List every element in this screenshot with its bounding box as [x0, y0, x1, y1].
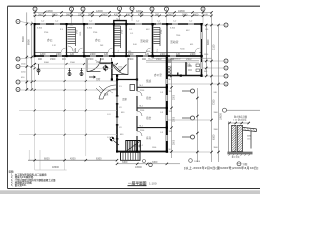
dim chain x171.5 beside wing: [171, 58, 173, 158]
detail hatched wall strip 1: [232, 125, 236, 151]
inner line y58: [153, 57, 212, 59]
wing right wall: [166, 56, 168, 152]
svg-text:宿舍: 宿舍: [146, 116, 152, 120]
svg-text:3.300: 3.300: [87, 28, 93, 30]
svg-text:2700: 2700: [44, 32, 48, 34]
svg-text:150: 150: [205, 29, 208, 31]
svg-text:2400: 2400: [90, 53, 96, 56]
svg-text:18600: 18600: [52, 166, 60, 169]
svg-text:3600: 3600: [193, 13, 199, 16]
svg-text:M-1: M-1: [140, 125, 143, 127]
wing corridor specks: [119, 86, 156, 149]
grid line extensions right: [168, 25, 224, 84]
svg-text:3600: 3600: [52, 13, 58, 16]
svg-text:6900: 6900: [27, 39, 31, 45]
exterior wall top: [34, 23, 203, 25]
wing column dots: [116, 75, 203, 153]
svg-text:3300: 3300: [174, 116, 176, 122]
wing stair break line: [127, 142, 140, 152]
svg-text:C-3: C-3: [160, 92, 163, 94]
svg-text:3600: 3600: [38, 13, 44, 16]
toilet wall x186: [185, 62, 187, 76]
column dots top band: [34, 23, 203, 57]
svg-text:900: 900: [204, 71, 207, 73]
small marks right section: [168, 60, 171, 62]
courtyard bottom dim line: [28, 159, 117, 161]
wing stair block: [126, 141, 141, 153]
stair shaft walls: [114, 21, 126, 57]
stair shaft treads: [115, 26, 121, 48]
svg-text:10500: 10500: [135, 166, 142, 169]
entrance hall bottom wall: [116, 79, 138, 81]
detail apron slab: [243, 127, 257, 148]
svg-text:6900: 6900: [207, 39, 210, 45]
svg-text:4200: 4200: [70, 157, 76, 160]
closet rect below hall: [130, 85, 135, 91]
svg-text:6000: 6000: [44, 157, 50, 160]
porch wall vertical: [111, 62, 113, 80]
svg-text:C-2: C-2: [158, 23, 161, 25]
svg-text:6300: 6300: [96, 157, 102, 160]
top dimension ticks: [34, 11, 204, 17]
right dim ticks: [205, 24, 220, 153]
svg-text:C-3: C-3: [160, 112, 163, 114]
dimension text under bottom wall: [38, 58, 192, 61]
svg-text:2400: 2400: [96, 62, 102, 64]
svg-text:2700: 2700: [161, 30, 163, 34]
detail top dim: [229, 122, 249, 124]
right dim line 3: [218, 25, 220, 162]
wing bottom dim: [117, 163, 180, 165]
svg-text:1.5: 1.5: [119, 86, 122, 88]
leader marks entrance: [95, 60, 113, 93]
svg-text:M-1: M-1: [190, 44, 193, 46]
sheet border left: [7, 6, 9, 188]
svg-text:1:12: 1:12: [52, 45, 56, 47]
svg-text:1800x600: 1800x600: [172, 59, 180, 61]
corridor inner line: [35, 52, 202, 54]
top grid bubble digits: [34, 8, 205, 11]
svg-text:19800: 19800: [220, 113, 223, 120]
interior wall x167 upper: [166, 24, 168, 56]
right wall windows: [201, 32, 203, 69]
top dimension line 1: [33, 11, 212, 13]
svg-text:900: 900: [142, 58, 147, 61]
detail leader line: [223, 108, 227, 112]
left grid leaders: [20, 22, 117, 91]
svg-text:10500: 10500: [194, 161, 201, 163]
top grid bubbles row: [33, 7, 205, 12]
entrance door arcs pair 2: [112, 58, 129, 75]
svg-text:2100: 2100: [140, 130, 144, 132]
wing stair treads: [128, 141, 138, 152]
svg-text:2700: 2700: [77, 30, 79, 34]
left exterior wall: [34, 23, 36, 57]
stair 3 treads: [154, 28, 161, 47]
porch wall stub: [100, 62, 111, 64]
wing room labels: [122, 79, 152, 140]
svg-text:卫生: 卫生: [186, 63, 192, 67]
interior wall x84: [83, 24, 85, 56]
courtyard side labels: [107, 112, 125, 139]
wall bottom of top band: [34, 55, 203, 57]
sheet background: [0, 0, 260, 194]
left dim speck cluster: [21, 64, 26, 80]
svg-text:TB-2: TB-2: [116, 19, 120, 21]
entrance door arcs pair 1: [87, 58, 101, 72]
svg-text:C3: C3: [119, 127, 121, 129]
wing stair arrow: [133, 145, 141, 147]
top grid leader lines: [35, 11, 203, 25]
svg-text:办公: 办公: [95, 38, 101, 42]
svg-text:2400: 2400: [128, 53, 134, 56]
right grid bubble digits: [225, 25, 227, 86]
svg-text:120: 120: [176, 53, 181, 56]
svg-text:1800: 1800: [146, 51, 150, 53]
svg-text:330: 330: [78, 13, 83, 16]
detail slab hatch marks: [244, 128, 255, 131]
interior wall x66.5: [66, 24, 68, 56]
svg-text:库房: 库房: [146, 136, 152, 140]
svg-text:3300: 3300: [174, 94, 176, 100]
wing left wall door gaps: [116, 96, 118, 124]
top wall window lines: [40, 23, 194, 25]
svg-text:2400: 2400: [190, 53, 196, 56]
svg-text:120: 120: [169, 131, 172, 133]
dimension text row inside above bottom wall: [40, 53, 196, 56]
svg-text:3300: 3300: [122, 161, 128, 164]
svg-text:宿舍: 宿舍: [146, 96, 152, 100]
svg-text:1500: 1500: [50, 58, 56, 61]
top dimension line 2: [33, 15, 212, 17]
detail title top text: [233, 114, 247, 121]
svg-text:3.300: 3.300: [170, 28, 176, 30]
svg-text:TB-1: TB-1: [69, 25, 73, 27]
right grid bubbles column: [224, 23, 228, 86]
svg-text:900: 900: [38, 58, 43, 61]
svg-text:90: 90: [169, 149, 171, 151]
svg-text:3600: 3600: [102, 13, 108, 16]
left grid bubble digits: [17, 21, 19, 91]
svg-text:7200: 7200: [176, 35, 180, 37]
svg-text:2100: 2100: [213, 44, 216, 50]
svg-text:120: 120: [145, 53, 150, 56]
survey point symbol: [102, 65, 108, 71]
wing room walls: [137, 87, 167, 127]
left dimension line 2: [31, 22, 33, 91]
right dim numbers: [207, 39, 223, 140]
svg-text:3.00: 3.00: [133, 44, 137, 46]
right exterior wall upper: [201, 23, 203, 76]
svg-text:M-1: M-1: [140, 106, 143, 108]
high window double lines: [146, 60, 199, 62]
wing window-door labels: [140, 85, 164, 147]
wing left wall: [116, 76, 118, 153]
detail bottom label: [237, 162, 241, 166]
room top inner specks: [37, 28, 190, 33]
stair 1 arrow: [74, 48, 76, 52]
svg-text:120: 120: [169, 111, 172, 113]
door dark marks on wing left wall: [116, 95, 118, 140]
svg-text:走廊: 走廊: [122, 97, 127, 101]
outside steps below wing: [121, 152, 141, 160]
svg-text:1500: 1500: [88, 58, 94, 61]
svg-text:[以上-2006年2月6日(第0286号)2006年8月30: [以上-2006年2月6日(第0286号)2006年8月30日]: [184, 165, 259, 170]
svg-text:1500: 1500: [70, 62, 76, 64]
svg-text:3900: 3900: [214, 147, 218, 149]
wing room door arcs: [137, 91, 142, 136]
svg-text:6900: 6900: [21, 36, 25, 42]
hanging bubbles near wing: [191, 89, 195, 139]
wing window marks right wall: [166, 79, 168, 141]
svg-text:1500: 1500: [152, 147, 156, 149]
svg-text:M-1: M-1: [140, 85, 143, 87]
svg-text:120: 120: [70, 53, 75, 56]
bottom title: [128, 181, 157, 186]
svg-text:5、散水宽600.: 5、散水宽600.: [11, 183, 27, 187]
entrance ramp curve: [99, 85, 116, 99]
svg-text:C-3: C-3: [160, 132, 163, 134]
svg-text:3000: 3000: [44, 62, 50, 64]
svg-text:2700: 2700: [93, 32, 97, 34]
grid bubble with leader right of wing: [189, 159, 193, 163]
svg-text:900: 900: [62, 58, 67, 61]
svg-text:120: 120: [169, 91, 172, 93]
detail side dim: [247, 134, 251, 141]
entrance labels: [96, 63, 123, 96]
svg-text:3300: 3300: [214, 112, 218, 114]
svg-text:1200: 1200: [40, 53, 46, 56]
toilet stalls: [188, 64, 200, 72]
svg-text:办公室: 办公室: [154, 73, 162, 77]
svg-text:2400: 2400: [56, 53, 62, 56]
svg-text:3300: 3300: [152, 161, 158, 164]
misc room dim specks: [44, 19, 193, 53]
svg-text:值班: 值班: [146, 79, 152, 83]
top dimension numbers: [38, 10, 199, 16]
svg-text:3600: 3600: [168, 13, 174, 16]
detail hatched wall strip 2: [238, 125, 243, 151]
sheet border bottom: [8, 188, 261, 190]
entrance door leaves: [114, 65, 127, 72]
sheet border top: [8, 5, 261, 7]
top dim right end ticks: [210, 11, 212, 17]
washbasins: [168, 66, 171, 76]
stair up labels: [73, 48, 159, 53]
courtyard crossing ticks: [34, 80, 87, 136]
left grid bubbles: [16, 20, 20, 92]
svg-text:1350: 1350: [80, 32, 82, 36]
svg-text:一层平面图: 一层平面图: [128, 181, 147, 186]
svg-text:C3: C3: [119, 107, 121, 109]
interior wall x152.5: [152, 24, 154, 56]
detail left edge line: [228, 122, 230, 153]
corridor door gaps: [61, 52, 200, 54]
svg-text:3300: 3300: [214, 129, 218, 131]
detail ground line: [227, 152, 252, 154]
svg-text:2700: 2700: [122, 30, 124, 34]
right dim line 2: [211, 12, 213, 162]
svg-text:240: 240: [214, 92, 217, 94]
office label: [154, 63, 192, 77]
south facade dim ticks: [34, 63, 118, 65]
entrance step marks: [96, 86, 104, 93]
svg-text:2100: 2100: [140, 110, 144, 112]
svg-text:1500: 1500: [128, 58, 134, 61]
svg-text:1:100: 1:100: [149, 181, 157, 185]
svg-text:120: 120: [104, 53, 109, 56]
svg-text:活动室: 活动室: [140, 39, 149, 43]
svg-text:90: 90: [169, 79, 171, 81]
small bubble wing bottom: [149, 163, 153, 167]
window labels above top wall: [41, 21, 193, 23]
svg-text:900: 900: [128, 51, 131, 53]
svg-text:3600: 3600: [66, 13, 72, 16]
courtyard dim ticks: [34, 159, 119, 161]
svg-text:2400: 2400: [160, 53, 166, 56]
room labels top band: [47, 29, 185, 51]
svg-text:C15: C15: [247, 139, 250, 141]
right dim line 1: [205, 24, 207, 76]
svg-text:6300: 6300: [213, 134, 216, 140]
downspout symbols below south wall: [37, 64, 95, 78]
courtyard dim numbers: [44, 157, 102, 168]
left dimension line 1: [26, 12, 28, 90]
dim chain x197.4: [196, 88, 198, 162]
svg-text:7200: 7200: [213, 99, 216, 105]
svg-text:3600: 3600: [88, 13, 94, 16]
wing corridor wall: [136, 57, 138, 152]
left dimension numbers: [21, 36, 31, 45]
svg-text:GC-1: GC-1: [148, 59, 153, 61]
wing bottom wall: [116, 151, 168, 153]
svg-text:办公: 办公: [47, 38, 53, 42]
svg-text:360: 360: [155, 13, 160, 16]
svg-text:4200: 4200: [138, 13, 144, 16]
corridor wall door gaps: [136, 91, 138, 136]
left dimension ticks: [26, 23, 33, 91]
survey point symbol 2: [110, 137, 119, 145]
wall y75.5 right section: [167, 75, 202, 77]
svg-text:2100: 2100: [140, 90, 144, 92]
stair 1 treads: [68, 28, 76, 47]
svg-text:420: 420: [114, 13, 119, 16]
svg-text:3900: 3900: [174, 139, 176, 145]
bottom wall window lines: [44, 55, 176, 57]
svg-text:3600: 3600: [182, 13, 188, 16]
svg-text:3.300: 3.300: [37, 28, 43, 30]
svg-text:330: 330: [126, 13, 131, 16]
bottom gray band: [0, 190, 260, 194]
svg-text:活动室: 活动室: [170, 40, 179, 44]
